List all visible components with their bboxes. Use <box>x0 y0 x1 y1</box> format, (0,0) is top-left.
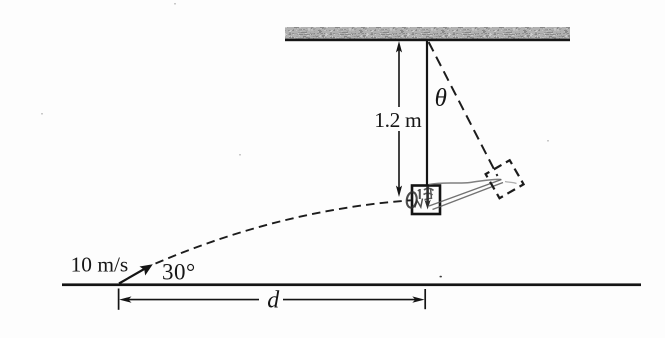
d dimension ticks <box>119 289 426 310</box>
svg-text:d: d <box>267 287 280 313</box>
displaced block (dashed, rotated) <box>486 160 524 198</box>
swing line (dashed, pivot to displaced block) <box>429 42 498 176</box>
pencil arrow inside block <box>424 186 430 210</box>
ground line <box>62 283 641 286</box>
pencil line (upper, wavy) block to dashed block <box>429 179 501 184</box>
trajectory (dashed parabola) <box>156 200 411 263</box>
ceiling (stippled bar) <box>285 27 570 39</box>
svg-text:1.2 m: 1.2 m <box>374 108 422 132</box>
launch velocity arrow (solid) <box>119 264 153 283</box>
cord (vertical string from ceiling to block) <box>426 41 428 186</box>
pencil oval on block left edge <box>406 191 418 208</box>
pencil marks inside block <box>415 189 423 208</box>
pencil smudge near dashed block <box>505 182 517 184</box>
svg-text:30°: 30° <box>162 259 196 284</box>
1.2 m dimension arrow (lower segment, arrowhead down) <box>398 131 400 189</box>
1.2 m dimension arrow (upper segment, arrowhead up) <box>396 41 402 197</box>
pencil line (lower wedge 2) <box>433 183 504 210</box>
d dimension arrows <box>119 296 424 302</box>
block (hanging box) <box>412 186 440 215</box>
pencil scribble cluster on cord <box>424 188 434 200</box>
svg-text:10 m/s: 10 m/s <box>71 252 129 276</box>
ceiling bottom edge line <box>285 39 570 42</box>
svg-text:θ: θ <box>435 85 447 112</box>
pencil line (lower wedge 1) <box>429 180 502 207</box>
scan specks <box>440 276 442 278</box>
